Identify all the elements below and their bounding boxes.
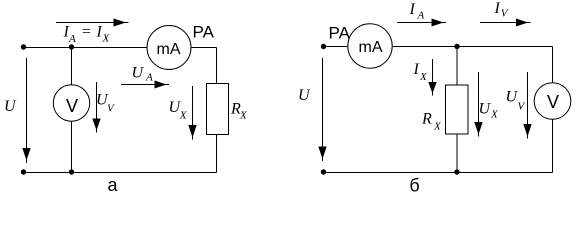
resistor RX body (right): [446, 85, 469, 134]
arrow: voltage UA: [121, 81, 169, 89]
wire: left circuit right vertical lower: [216, 135, 218, 173]
svg-text:V: V: [66, 96, 78, 116]
ammeter PA circle (right): [348, 24, 392, 68]
node: right circuit bottom junction: [454, 169, 459, 174]
svg-text:PA: PA: [193, 23, 215, 42]
wire: right circuit voltmeter branch upper: [552, 47, 554, 83]
node: left circuit bottom junction: [69, 169, 74, 174]
node: right circuit bottom-left terminal: [321, 169, 326, 174]
wire: right circuit top bus left of ammeter: [324, 46, 348, 48]
voltmeter PV circle (right): [534, 83, 571, 120]
node: left circuit bottom-left terminal: [21, 169, 26, 174]
wire: voltmeter branch upper: [71, 48, 73, 85]
node: left circuit top junction: [69, 44, 74, 49]
resistor RX body (left): [207, 84, 229, 135]
node: left circuit top-left terminal: [21, 44, 26, 49]
svg-text:PA: PA: [329, 24, 351, 43]
arrow: current IX (right): [428, 59, 436, 96]
node: right circuit top junction: [454, 44, 459, 49]
arrow: voltage UX (left): [188, 86, 196, 140]
svg-text:mA: mA: [359, 39, 383, 56]
wire: left circuit top bus: [23, 47, 147, 49]
wire: left circuit top bus right of ammeter: [191, 47, 217, 49]
arrow: current IA (right): [397, 19, 446, 27]
wire: left circuit bottom bus: [23, 172, 217, 174]
arrow: current IV (right): [480, 19, 531, 27]
node: right circuit top-left terminal: [321, 44, 326, 49]
wire: right circuit resistor branch upper: [456, 47, 458, 86]
svg-text:V: V: [547, 92, 559, 112]
svg-text:U: U: [298, 87, 311, 104]
svg-text:б: б: [409, 176, 419, 196]
wire: right circuit resistor branch lower: [456, 134, 458, 173]
ammeter PA circle (left): [147, 26, 191, 70]
wire: right circuit top bus right of ammeter: [392, 46, 553, 48]
wire: right circuit voltmeter branch lower: [552, 119, 554, 172]
wire: left circuit right vertical upper: [216, 48, 218, 84]
voltmeter PV circle (left): [53, 85, 89, 121]
svg-text:а: а: [107, 175, 118, 195]
arrow: voltage UV (left): [92, 82, 100, 133]
wire: right circuit bottom bus: [324, 172, 553, 174]
arrow: voltage UV (right): [523, 72, 531, 139]
svg-text:U: U: [4, 98, 17, 115]
arrow: voltage U (left): [22, 58, 30, 163]
arrow: voltage U (right): [318, 58, 326, 161]
svg-text:mA: mA: [157, 41, 181, 58]
arrow: current IA=IX: [56, 19, 129, 27]
arrow: voltage UX (right): [474, 72, 482, 137]
wire: voltmeter branch lower: [71, 121, 73, 172]
